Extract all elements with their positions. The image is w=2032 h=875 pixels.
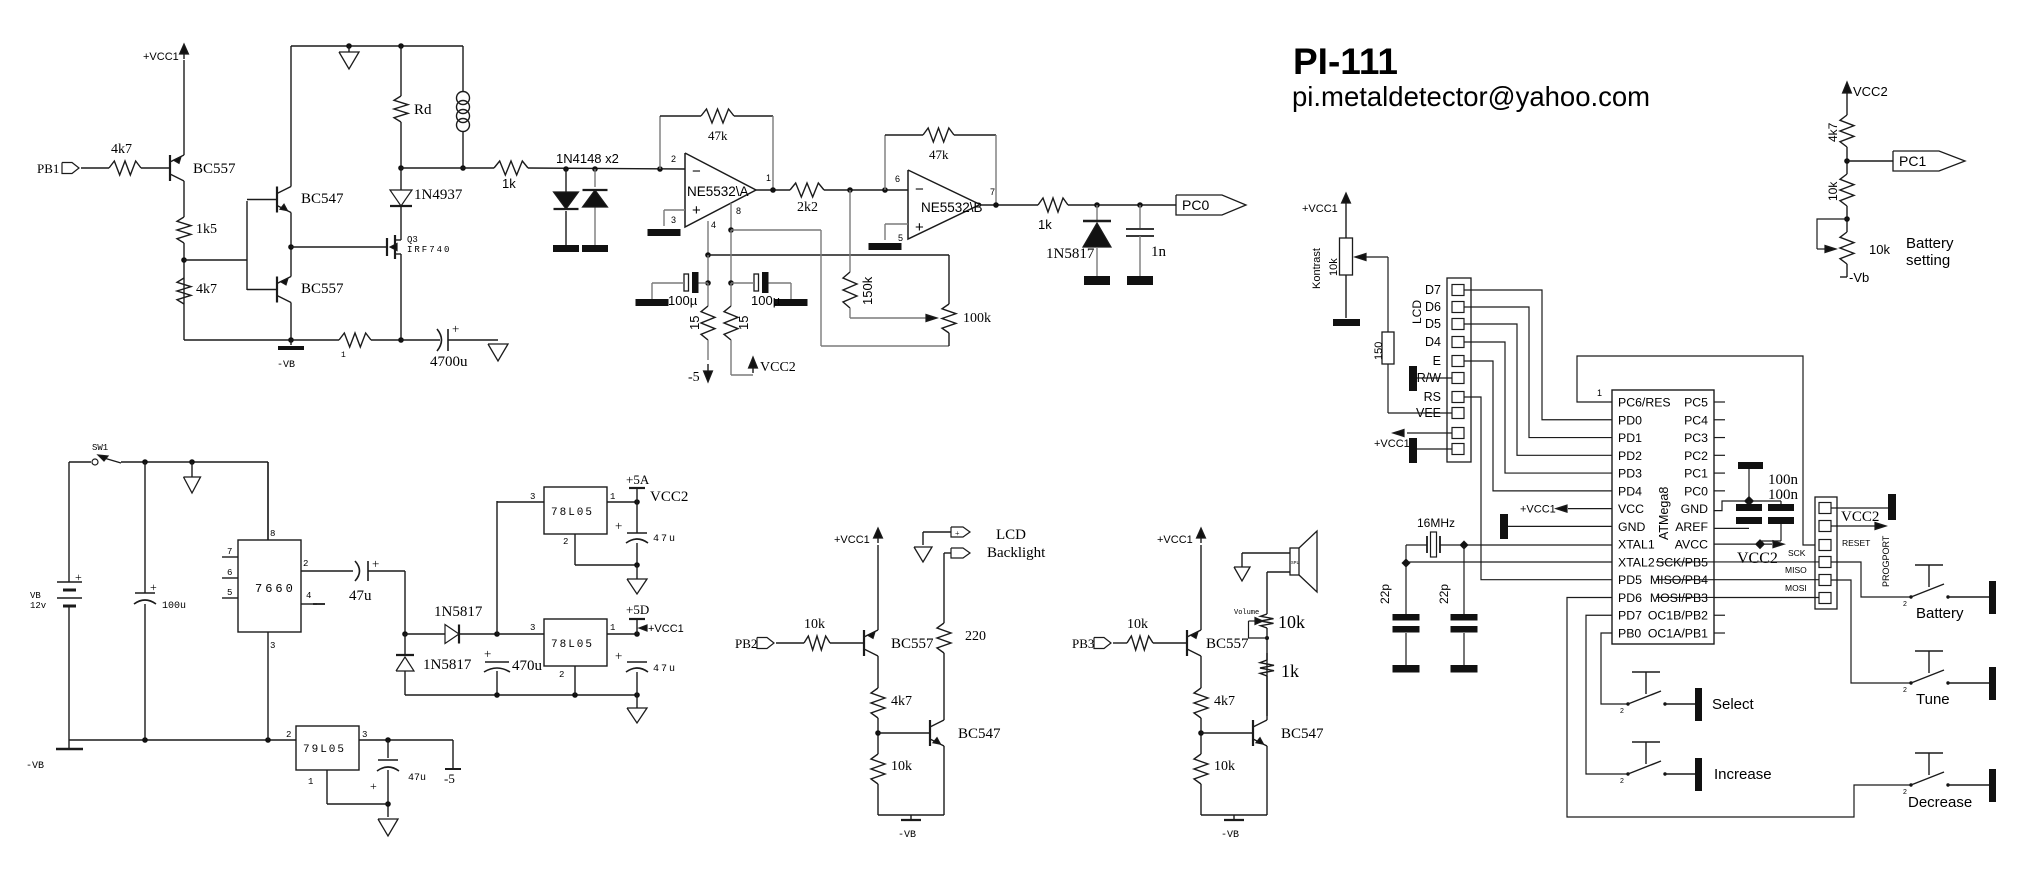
svg-text:2: 2 xyxy=(563,537,568,547)
svg-text:+VCC1: +VCC1 xyxy=(1302,203,1338,215)
svg-text:Kontrast: Kontrast xyxy=(1311,248,1323,289)
svg-text:GND: GND xyxy=(1618,520,1645,534)
svg-text:D6: D6 xyxy=(1425,300,1441,314)
svg-text:BC557: BC557 xyxy=(891,636,934,652)
svg-text:2: 2 xyxy=(1903,687,1907,694)
svg-text:PROGPORT: PROGPORT xyxy=(1881,535,1891,587)
svg-text:XTAL1: XTAL1 xyxy=(1618,538,1655,552)
svg-text:79L05: 79L05 xyxy=(303,744,346,756)
svg-text:AREF: AREF xyxy=(1675,520,1708,534)
svg-text:10k: 10k xyxy=(1214,759,1235,774)
svg-text:D4: D4 xyxy=(1425,335,1441,349)
svg-text:47u: 47u xyxy=(349,588,372,604)
svg-text:PB0: PB0 xyxy=(1618,627,1641,641)
svg-text:VCC2: VCC2 xyxy=(760,360,796,375)
svg-text:2: 2 xyxy=(671,154,676,164)
svg-text:150: 150 xyxy=(1373,342,1385,360)
svg-text:PD3: PD3 xyxy=(1618,467,1642,481)
svg-text:setting: setting xyxy=(1906,252,1950,269)
svg-text:10k: 10k xyxy=(1328,258,1340,276)
svg-text:+: + xyxy=(372,556,379,571)
svg-text:+VCC1: +VCC1 xyxy=(1374,438,1410,450)
svg-text:2: 2 xyxy=(286,730,291,740)
svg-text:XTAL2: XTAL2 xyxy=(1618,555,1655,569)
svg-text:47u: 47u xyxy=(408,773,426,784)
svg-text:+VCC1: +VCC1 xyxy=(834,534,870,546)
svg-text:+: + xyxy=(915,219,924,236)
svg-text:470u: 470u xyxy=(512,658,543,674)
svg-text:−: − xyxy=(915,181,924,198)
svg-text:PD0: PD0 xyxy=(1618,413,1642,427)
svg-text:100n: 100n xyxy=(1768,472,1799,488)
svg-text:100k: 100k xyxy=(963,311,991,326)
svg-text:OC1B/PB2: OC1B/PB2 xyxy=(1648,609,1708,623)
svg-text:Q3: Q3 xyxy=(407,235,418,245)
svg-text:1N4148 x2: 1N4148 x2 xyxy=(556,151,619,166)
svg-text:PC3: PC3 xyxy=(1684,431,1708,445)
svg-text:4k7: 4k7 xyxy=(1214,694,1235,709)
svg-text:VCC2: VCC2 xyxy=(650,489,688,505)
svg-text:Volume: Volume xyxy=(1234,609,1259,617)
svg-text:D5: D5 xyxy=(1425,317,1441,331)
svg-text:2: 2 xyxy=(1620,778,1624,785)
svg-text:IRF740: IRF740 xyxy=(407,245,451,255)
svg-text:+5A: +5A xyxy=(626,472,650,487)
svg-text:SPL: SPL xyxy=(1291,560,1299,566)
svg-text:PD4: PD4 xyxy=(1618,484,1642,498)
svg-text:E: E xyxy=(1433,354,1441,368)
svg-text:3: 3 xyxy=(530,623,535,633)
svg-text:PC2: PC2 xyxy=(1684,449,1708,463)
svg-text:MOSI: MOSI xyxy=(1785,583,1807,593)
svg-text:100µ: 100µ xyxy=(668,293,698,308)
svg-text:VCC: VCC xyxy=(1618,502,1644,516)
svg-text:-5: -5 xyxy=(444,771,455,786)
svg-text:Increase: Increase xyxy=(1714,766,1772,783)
svg-text:4k7: 4k7 xyxy=(111,142,132,157)
svg-text:BC547: BC547 xyxy=(958,726,1001,742)
svg-text:+: + xyxy=(955,529,960,538)
svg-text:RESET: RESET xyxy=(1842,538,1870,548)
svg-text:2k2: 2k2 xyxy=(797,200,818,215)
svg-text:PB3: PB3 xyxy=(1072,636,1094,651)
svg-text:PD6: PD6 xyxy=(1618,591,1642,605)
svg-text:1k: 1k xyxy=(1038,217,1052,232)
svg-text:10k: 10k xyxy=(1826,181,1840,201)
svg-text:+VCC1: +VCC1 xyxy=(1520,504,1556,516)
svg-text:4k7: 4k7 xyxy=(1826,122,1840,142)
svg-text:-VB: -VB xyxy=(26,761,44,772)
svg-text:47k: 47k xyxy=(929,147,949,162)
svg-text:PB1: PB1 xyxy=(37,161,59,176)
svg-text:1N4937: 1N4937 xyxy=(414,187,463,203)
svg-text:6: 6 xyxy=(227,568,232,578)
svg-text:-Vb: -Vb xyxy=(1849,270,1869,285)
svg-text:1n: 1n xyxy=(1151,244,1167,260)
svg-text:3: 3 xyxy=(671,215,676,225)
svg-text:3: 3 xyxy=(530,492,535,502)
svg-text:RS: RS xyxy=(1424,390,1441,404)
svg-text:2: 2 xyxy=(559,670,564,680)
svg-text:PC5: PC5 xyxy=(1684,396,1708,410)
svg-text:Battery: Battery xyxy=(1906,235,1954,252)
svg-text:+: + xyxy=(615,518,622,533)
svg-text:VCC2: VCC2 xyxy=(1737,550,1778,567)
svg-text:7660: 7660 xyxy=(255,582,296,596)
svg-text:6: 6 xyxy=(895,174,900,184)
svg-text:Select: Select xyxy=(1712,696,1755,713)
svg-text:8: 8 xyxy=(270,529,275,539)
svg-text:BC547: BC547 xyxy=(301,191,344,207)
svg-text:100µ: 100µ xyxy=(751,293,781,308)
svg-text:10k: 10k xyxy=(1869,242,1890,257)
svg-text:PD2: PD2 xyxy=(1618,449,1642,463)
svg-text:220: 220 xyxy=(965,629,986,644)
svg-text:1N5817: 1N5817 xyxy=(434,604,483,620)
svg-text:78L05: 78L05 xyxy=(551,507,594,519)
svg-text:+: + xyxy=(150,580,157,594)
svg-text:VCC2: VCC2 xyxy=(1841,509,1879,525)
svg-text:D7: D7 xyxy=(1425,283,1441,297)
svg-text:12v: 12v xyxy=(30,601,47,611)
svg-text:8: 8 xyxy=(736,206,741,216)
svg-text:AVCC: AVCC xyxy=(1675,538,1708,552)
svg-text:NE5532\A: NE5532\A xyxy=(687,184,749,199)
svg-text:Backlight: Backlight xyxy=(987,545,1046,561)
svg-text:1N5817: 1N5817 xyxy=(1046,246,1095,262)
svg-text:+VCC1: +VCC1 xyxy=(1157,534,1193,546)
svg-text:PC6/RES: PC6/RES xyxy=(1618,396,1671,410)
svg-text:1: 1 xyxy=(341,351,346,360)
svg-text:pi.metaldetector@yahoo.com: pi.metaldetector@yahoo.com xyxy=(1292,81,1650,112)
svg-text:+5D: +5D xyxy=(626,602,649,617)
svg-text:PC0: PC0 xyxy=(1684,484,1708,498)
svg-text:1: 1 xyxy=(308,777,313,787)
svg-text:3: 3 xyxy=(362,730,367,740)
svg-text:10k: 10k xyxy=(1127,617,1148,632)
svg-text:PI-111: PI-111 xyxy=(1293,41,1398,82)
svg-text:10k: 10k xyxy=(1278,612,1305,632)
svg-text:2: 2 xyxy=(1903,601,1907,608)
svg-text:VB: VB xyxy=(30,591,41,601)
svg-text:47u: 47u xyxy=(653,664,677,675)
svg-text:PD1: PD1 xyxy=(1618,431,1642,445)
svg-text:10k: 10k xyxy=(804,617,825,632)
svg-text:SCK: SCK xyxy=(1788,548,1806,558)
svg-text:PC0: PC0 xyxy=(1182,197,1209,213)
svg-text:1k5: 1k5 xyxy=(196,222,217,237)
svg-text:47u: 47u xyxy=(653,534,677,545)
svg-text:PD5: PD5 xyxy=(1618,573,1642,587)
svg-text:100n: 100n xyxy=(1768,487,1799,503)
svg-text:+: + xyxy=(615,648,622,663)
svg-text:10k: 10k xyxy=(891,759,912,774)
svg-text:1: 1 xyxy=(610,623,615,633)
svg-text:+: + xyxy=(370,779,377,793)
svg-text:78L05: 78L05 xyxy=(551,639,594,651)
svg-text:Battery: Battery xyxy=(1916,605,1964,622)
svg-text:2: 2 xyxy=(303,559,308,569)
svg-text:4k7: 4k7 xyxy=(196,282,217,297)
svg-text:16MHz: 16MHz xyxy=(1417,516,1455,530)
svg-text:22p: 22p xyxy=(1437,584,1451,604)
svg-text:7: 7 xyxy=(227,547,232,557)
svg-text:5: 5 xyxy=(898,233,903,243)
svg-text:47k: 47k xyxy=(708,128,728,143)
svg-text:+VCC1: +VCC1 xyxy=(143,51,179,63)
svg-text:4700u: 4700u xyxy=(430,354,468,370)
svg-text:PD7: PD7 xyxy=(1618,609,1642,623)
svg-text:-VB: -VB xyxy=(898,830,916,841)
svg-text:NE5532\B: NE5532\B xyxy=(921,200,983,215)
svg-text:−: − xyxy=(692,163,701,180)
svg-text:4: 4 xyxy=(306,591,311,601)
svg-text:PC4: PC4 xyxy=(1684,413,1708,427)
svg-text:1: 1 xyxy=(610,492,615,502)
svg-text:BC557: BC557 xyxy=(301,281,344,297)
svg-text:GND: GND xyxy=(1681,502,1708,516)
svg-text:ATMega8: ATMega8 xyxy=(1657,487,1671,540)
svg-text:-VB: -VB xyxy=(277,360,295,371)
svg-text:1k: 1k xyxy=(1281,661,1299,681)
svg-text:VCC2: VCC2 xyxy=(1853,84,1888,99)
svg-text:1: 1 xyxy=(766,173,771,183)
svg-text:-VB: -VB xyxy=(1221,830,1239,841)
svg-text:3: 3 xyxy=(270,641,275,651)
svg-text:2: 2 xyxy=(1620,708,1624,715)
svg-text:22p: 22p xyxy=(1378,584,1392,604)
svg-text:MISO: MISO xyxy=(1785,565,1807,575)
svg-text:PB2: PB2 xyxy=(735,636,757,651)
svg-text:OC1A/PB1: OC1A/PB1 xyxy=(1648,627,1708,641)
svg-text:Rd: Rd xyxy=(414,102,432,118)
svg-text:BC557: BC557 xyxy=(1206,636,1249,652)
svg-text:+: + xyxy=(75,570,82,584)
svg-text:100u: 100u xyxy=(162,601,186,612)
svg-text:15: 15 xyxy=(687,316,702,330)
svg-text:4k7: 4k7 xyxy=(891,694,912,709)
svg-text:BC547: BC547 xyxy=(1281,726,1324,742)
svg-text:BC557: BC557 xyxy=(193,161,236,177)
svg-text:+: + xyxy=(692,202,701,219)
svg-text:1: 1 xyxy=(1597,388,1602,398)
svg-text:PC1: PC1 xyxy=(1899,153,1926,169)
svg-text:+VCC1: +VCC1 xyxy=(648,623,684,635)
svg-text:7: 7 xyxy=(990,187,995,197)
svg-text:+: + xyxy=(484,646,491,661)
svg-text:LCD: LCD xyxy=(1410,300,1424,324)
svg-text:Decrease: Decrease xyxy=(1908,794,1972,811)
svg-text:1k: 1k xyxy=(502,176,516,191)
svg-text:-5: -5 xyxy=(688,370,700,385)
svg-text:LCD: LCD xyxy=(996,527,1026,543)
svg-text:1N5817: 1N5817 xyxy=(423,657,472,673)
svg-text:PC1: PC1 xyxy=(1684,467,1708,481)
svg-text:150k: 150k xyxy=(860,276,875,305)
svg-text:4: 4 xyxy=(711,220,716,230)
svg-text:5: 5 xyxy=(227,588,232,598)
svg-text:SW1: SW1 xyxy=(92,443,108,453)
svg-text:Tune: Tune xyxy=(1916,691,1950,708)
svg-text:+: + xyxy=(452,321,459,336)
svg-text:2: 2 xyxy=(1903,789,1907,796)
svg-text:15: 15 xyxy=(736,316,751,330)
